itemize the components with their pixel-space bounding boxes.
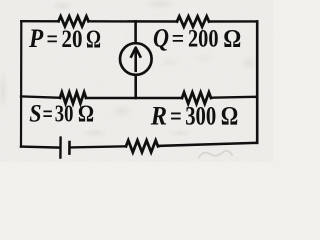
svg-text:=: =: [172, 24, 185, 53]
paper smudge below battery: [81, 128, 109, 138]
wire middle-left segment: [21, 96, 60, 97]
svg-text:20: 20: [62, 26, 83, 53]
current source / galvanometer circle: [120, 43, 152, 75]
svg-text:Q: Q: [153, 23, 169, 53]
bottom resistor zigzag: [126, 140, 158, 152]
paper smudge right of S label: [111, 103, 133, 119]
svg-text:Ω: Ω: [78, 100, 94, 127]
svg-text:=: =: [170, 102, 182, 131]
wire top-left segment: [21, 20, 58, 22]
wire middle-center segment: [86, 97, 182, 99]
svg-text:30: 30: [55, 100, 74, 127]
resistor S (30 ohm) zigzag: [60, 92, 86, 103]
faint ghost ring under Q label: [160, 55, 180, 69]
svg-text:Ω: Ω: [86, 26, 101, 53]
wire right side: [256, 21, 259, 142]
paper grain noise: [0, 0, 273, 162]
paper smudge right of circle: [240, 55, 258, 71]
resistor P (20 ohm) zigzag: [59, 16, 89, 26]
svg-text:Ω: Ω: [221, 102, 239, 131]
label S = 30 ohm: [29, 100, 94, 127]
battery cell: short plate: [68, 142, 71, 154]
paper smudge top left: [50, 0, 74, 12]
faint ghost ring under 200: [194, 52, 216, 64]
svg-text:S: S: [29, 100, 41, 127]
wire bottom-left segment (to battery): [21, 147, 59, 148]
svg-text:R: R: [150, 101, 167, 131]
arrow head: [131, 48, 140, 57]
svg-text:Ω: Ω: [223, 24, 241, 53]
wire from current source to middle wire: [134, 75, 137, 98]
arrow shaft inside circle: [134, 50, 137, 71]
wire middle-right segment: [211, 96, 257, 99]
battery cell: long plate: [59, 138, 62, 158]
paper background: [0, 0, 273, 162]
svg-text:P: P: [28, 23, 44, 53]
paper smudge left edge: [0, 68, 8, 112]
label R = 300 ohm: [150, 101, 238, 131]
wire left side: [20, 21, 22, 146]
wire bottom-right segment: [158, 143, 257, 146]
svg-text:=: =: [47, 26, 59, 53]
faint pencil squiggle bottom right: [199, 151, 232, 157]
wire from top to current source: [134, 21, 137, 43]
wire top-right segment: [209, 20, 257, 23]
resistor R (300 ohm) zigzag: [182, 92, 211, 103]
svg-text:=: =: [43, 100, 53, 127]
resistor Q (200 ohm) zigzag: [177, 16, 209, 26]
label P = 20 ohm: [28, 23, 101, 53]
wire top-middle segment: [89, 20, 178, 23]
svg-text:200: 200: [188, 24, 219, 53]
label Q = 200 ohm: [153, 23, 241, 53]
paper smudge below R label: [168, 129, 192, 137]
wire bottom segment battery to resistor: [71, 146, 126, 147]
svg-text:300: 300: [185, 102, 216, 131]
paper smudge top center: [142, 0, 178, 10]
